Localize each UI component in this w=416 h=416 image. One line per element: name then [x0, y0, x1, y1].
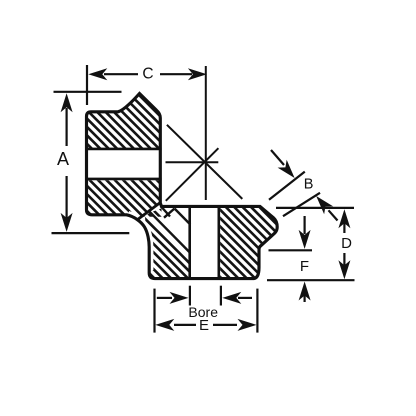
svg-text:A: A — [57, 149, 69, 169]
svg-text:C: C — [142, 65, 153, 82]
svg-text:D: D — [341, 235, 352, 252]
svg-text:B: B — [304, 177, 314, 193]
svg-text:F: F — [300, 258, 309, 275]
svg-text:E: E — [199, 317, 209, 334]
